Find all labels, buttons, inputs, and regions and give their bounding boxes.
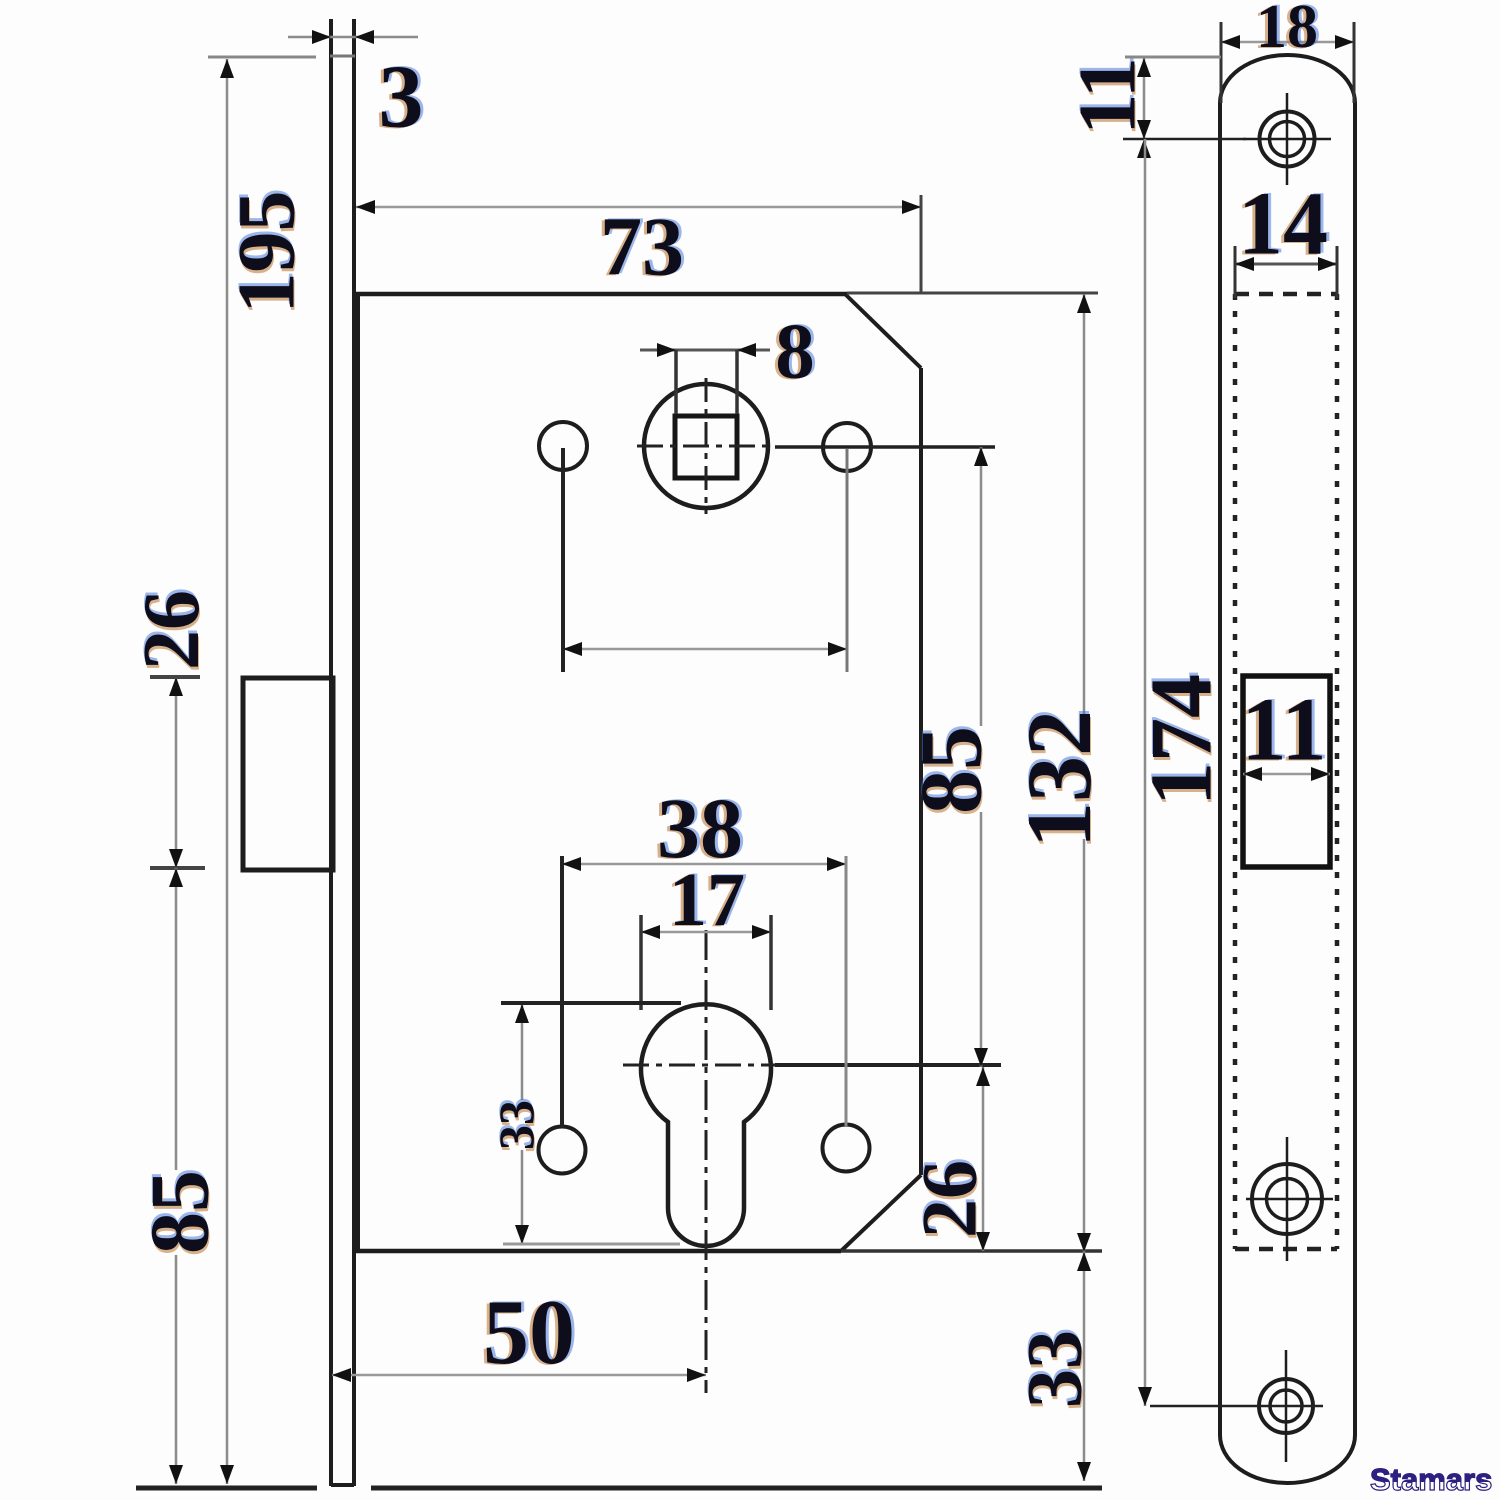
svg-text:3: 3 [379,48,424,147]
spindle horizontal centerline [637,445,775,448]
svg-text:11: 11 [1062,57,1153,134]
dimension 50 (backset) [332,1281,706,1383]
svg-text:11: 11 [1241,681,1326,780]
dimension 18 (plate width) [1221,0,1354,103]
unlabeled dimension between upper holes [563,448,847,672]
top screw hole [1243,93,1331,185]
spindle vertical centerline [705,378,708,514]
dimension 3 (faceplate thickness) [288,30,424,147]
upper right screw hole circle [823,423,871,471]
dimension 26 (latch height) [128,590,216,868]
cylinder horizontal centerline [623,1064,775,1067]
bottom screw hole [1259,1350,1313,1462]
svg-text:50: 50 [483,1281,575,1383]
dimension 73 (body width) [356,195,921,294]
svg-text:26: 26 [906,1160,993,1238]
dimension 8 (square spindle) [640,309,815,415]
svg-text:85: 85 [134,1170,227,1254]
euro cylinder profile (pear shape) [641,1004,771,1246]
lock body outline [354,294,921,1251]
svg-text:33: 33 [488,1100,544,1150]
dimension 38 (lower holes spacing) [562,780,846,1128]
dimension 11 (plate top to first screw) [1062,57,1247,158]
upper left screw hole circle [539,422,587,470]
strike faceplate front view (rounded plate) [1220,55,1355,1483]
dimension 195 (overall height) [136,57,317,1488]
dimension 33 (body bottom to plate end) [371,1252,1102,1488]
latch opening in plate [1243,676,1330,867]
faceplate side view (vertical strip) [331,19,354,1486]
svg-text:18: 18 [1256,0,1318,61]
dimension 174 (screw to screw) [1134,139,1324,1406]
dimension 33 (cylinder height) [488,1003,681,1244]
svg-text:73: 73 [600,201,684,294]
svg-text:14: 14 [1238,175,1328,274]
lower right screw hole circle [823,1125,870,1172]
centerline extension to 85 dim [775,445,995,449]
svg-text:26: 26 [128,590,216,670]
dimension 17 (cylinder width) [641,858,771,1010]
spindle square hole 8mm [675,416,737,478]
svg-text:174: 174 [1134,674,1231,806]
dimension 14 (case projection width) [1235,175,1337,299]
dashed lock case projection rectangle [1235,294,1337,1249]
svg-text:17: 17 [669,858,745,942]
faceplate top crossbar [330,55,355,58]
cylinder vertical centerline [705,930,708,1393]
svg-text:8: 8 [775,309,815,396]
dimension 26 (cylinder center to body bottom) [906,1067,993,1251]
lower left screw hole circle [539,1127,586,1174]
dimension 11 (latch opening width) [1241,681,1330,782]
body bottom edge extension (to 132/33 dim) [841,1249,1102,1253]
svg-text:33: 33 [1011,1330,1098,1408]
dimension 85 (spindle to cylinder centers) [904,447,1001,1067]
svg-text:195: 195 [221,191,312,314]
latch bolt (protruding) [243,678,333,870]
middle screw hole [1246,1137,1333,1261]
centerline extension to 26 dim [775,1063,1001,1067]
svg-text:85: 85 [904,726,1001,814]
spindle hub circle [644,384,768,508]
svg-text:132: 132 [1008,710,1110,848]
dimension 85 (latch bottom to plate end) [134,868,227,1484]
body top edge extension (to 132 dim) [847,292,1098,295]
dimension 132 (body height) [1008,294,1110,1252]
